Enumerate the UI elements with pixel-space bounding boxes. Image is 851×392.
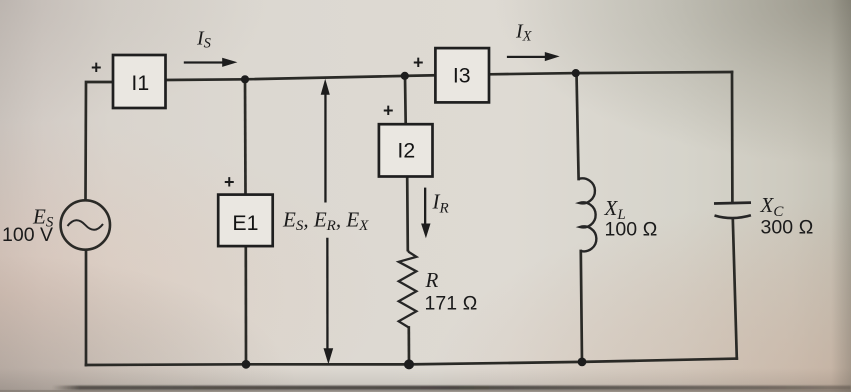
node A (top, x=245): [241, 75, 249, 83]
label R 171 ohm: [425, 268, 478, 315]
node D (bottom, x=582): [578, 358, 587, 367]
resistor R: [399, 250, 417, 328]
double arrow ES ER EX: [321, 79, 334, 364]
wire: resistor to bottom node F: [407, 328, 410, 365]
svg-text:E1: E1: [232, 211, 258, 235]
svg-text:+: +: [91, 58, 102, 78]
svg-text:+: +: [224, 172, 235, 192]
node F (bottom, x=409): [404, 359, 414, 369]
wire: bottom bus: [86, 359, 737, 365]
inductor XL: [579, 178, 597, 251]
meter box I2: [379, 124, 433, 176]
node C (top, x=576): [572, 69, 580, 77]
source ES (AC): [61, 200, 110, 249]
wire: node A down to E1: [244, 79, 247, 194]
meter box I1: [113, 55, 166, 108]
svg-text:300 Ω: 300 Ω: [761, 217, 814, 239]
arrow IR: [421, 188, 430, 239]
node B (top, x=405): [401, 72, 409, 80]
wire: I2 down to resistor R: [406, 177, 409, 251]
svg-text:R: R: [425, 268, 439, 292]
svg-text:I3: I3: [453, 63, 471, 87]
wire: left branch (source to top-left corner to I1): [86, 82, 114, 199]
arrow IS: [184, 58, 238, 67]
svg-text:100 V: 100 V: [2, 224, 53, 246]
wire: inductor to bottom node D: [581, 251, 582, 362]
svg-text:I1: I1: [131, 71, 149, 95]
wire: node C to top-right corner: [576, 72, 732, 73]
svg-text:171 Ω: 171 Ω: [425, 293, 478, 315]
svg-text:ES, ER, EX: ES, ER, EX: [282, 208, 369, 235]
label ES 100 V: [2, 205, 54, 247]
capacitor XC: [714, 203, 751, 219]
label XC 300 ohm: [760, 193, 814, 239]
wire: I3 to node C: [489, 73, 576, 74]
wire: E1 down to bottom node E: [244, 246, 247, 364]
wire: node B to I3: [405, 74, 436, 77]
wire: source bottom to bottom-left corner: [85, 251, 88, 365]
wire: top-right corner down to capacitor: [731, 72, 734, 202]
label XL 100 ohm: [604, 196, 658, 241]
node E (bottom, x=246): [242, 360, 251, 369]
arrow IX: [507, 52, 560, 61]
wire: node A to node B (top bus): [245, 76, 405, 79]
svg-text:100 Ω: 100 Ω: [605, 219, 658, 241]
wire: I1 to node A: [166, 78, 246, 81]
meter box E1: [218, 195, 273, 247]
wire: node B down to I2: [404, 76, 407, 124]
svg-text:+: +: [413, 53, 424, 73]
svg-text:I2: I2: [397, 139, 415, 163]
meter box I3: [435, 48, 489, 102]
wire: capacitor to bottom-right corner: [733, 219, 737, 359]
wire: node C down to inductor: [577, 73, 579, 179]
svg-text:+: +: [383, 101, 394, 121]
